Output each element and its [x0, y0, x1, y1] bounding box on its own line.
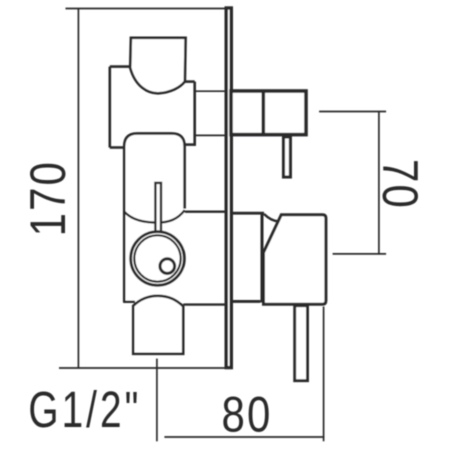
dimension 70 top tick	[319, 111, 386, 113]
lever vertical edge	[261, 213, 264, 302]
lever escutcheon bottom line	[233, 300, 260, 303]
capsule bottom left edge	[123, 301, 135, 303]
cartridge inner circle	[134, 235, 180, 281]
dimension 170 vertical line	[77, 9, 79, 369]
diverter knob divider	[261, 91, 265, 135]
small screw circle	[160, 259, 175, 274]
step from cartridge capsule to right edge	[185, 143, 195, 146]
top outlet shield shape	[130, 38, 185, 94]
cartridge capsule fill	[124, 133, 184, 302]
body upper block top edge	[110, 65, 133, 68]
handle shaft line to plate	[185, 210, 225, 212]
diverter knob top edge+body	[231, 91, 306, 135]
dimension 70 bottom tick	[333, 253, 387, 255]
inlet tube	[133, 296, 183, 354]
svg-text:70: 70	[372, 159, 428, 210]
body upper block left edge	[109, 67, 112, 148]
waist curve inside capsule	[124, 210, 185, 222]
lever stem	[295, 306, 308, 381]
step from outlet to right edge	[185, 80, 195, 83]
diverter knob stem	[284, 137, 291, 177]
dimension 70 vertical line	[378, 112, 380, 254]
lever escutcheon top line	[233, 212, 264, 215]
body upper block right edge	[193, 82, 196, 146]
dimension 80 right extension	[323, 307, 325, 442]
step from left edge to capsule	[110, 146, 124, 149]
wall plate	[226, 8, 231, 368]
upper connector line to plate (top)	[195, 90, 225, 92]
lever neck arc	[264, 214, 278, 221]
cartridge outer circle	[131, 232, 185, 286]
dimension 170 bottom extension line	[59, 367, 233, 369]
dimension 80 line	[164, 436, 324, 438]
G1/2 extension line below tube	[156, 359, 158, 442]
svg-text:80: 80	[222, 386, 273, 442]
upper connector line to plate (bottom)	[195, 134, 225, 136]
svg-text:G1/2": G1/2"	[28, 381, 141, 438]
lever grip	[264, 215, 326, 305]
cartridge capsule outline	[124, 133, 184, 302]
svg-text:170: 170	[19, 160, 75, 236]
dimension 170 top extension line	[66, 8, 225, 10]
lever pin bar	[155, 183, 161, 232]
lower shaft line to plate	[183, 303, 224, 305]
